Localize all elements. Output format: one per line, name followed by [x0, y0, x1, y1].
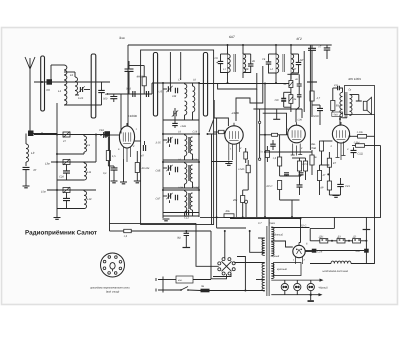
node: [41, 81, 43, 83]
trimmer C row2: [63, 160, 70, 165]
trimmer C row3: [63, 188, 70, 193]
power transformer Тр1 core: [267, 226, 269, 296]
lamp 1: [281, 283, 288, 290]
trimmer C row1: [63, 132, 70, 137]
label -140В box: [332, 112, 343, 116]
capacitor x300 lower: [297, 185, 303, 187]
wire: [316, 250, 364, 252]
tube V4 6P6: [332, 125, 349, 143]
wire: [312, 104, 320, 106]
wire gang feed B: [180, 52, 182, 80]
svg-text:-2,5М: -2,5М: [353, 141, 360, 144]
capacitor с24В: [172, 123, 178, 125]
wire V5 left: [271, 241, 293, 247]
coil right T0: [193, 86, 195, 112]
box колодка: [176, 276, 193, 283]
resistor 20к: [224, 214, 234, 218]
svg-text:ЛЗ: ЛЗ: [45, 88, 50, 92]
output transformer winding B: [350, 95, 353, 116]
capacitor C6: [146, 91, 148, 97]
svg-text:76Ш: 76Ш: [311, 147, 317, 150]
svg-text:С21: С21: [345, 185, 350, 188]
IF2 winding B: [291, 54, 294, 73]
wire y113: [263, 113, 287, 135]
lamp 2: [294, 283, 301, 290]
wire: [151, 83, 153, 94]
ground: [134, 181, 141, 183]
resistor +2 right drop: [310, 91, 314, 101]
svg-text:20к: 20к: [225, 210, 231, 213]
wire: [108, 165, 114, 167]
wire stair 2: [236, 66, 263, 121]
svg-text:С13: С13: [184, 217, 189, 220]
svg-text:1,5: 1,5: [124, 235, 128, 238]
IF2 capacitor B: [296, 62, 302, 64]
resistor x299: [297, 161, 301, 171]
ground: [183, 247, 191, 249]
wire rails right: [374, 115, 376, 264]
ground: [120, 182, 127, 184]
node: [198, 82, 200, 84]
wire +B drop right: [311, 45, 313, 48]
capacitor C row3: [63, 198, 70, 200]
trimmer 3+25 row0: [168, 86, 170, 92]
wire transformer top: [268, 219, 270, 227]
resistor 39к: [319, 141, 323, 151]
resistor 1-10к: [358, 135, 367, 139]
svg-text:кол.: кол.: [178, 279, 183, 282]
wire plate V4: [339, 118, 341, 120]
resistor 2а: [289, 95, 293, 104]
capacitor C05: [133, 91, 135, 97]
svg-text:L4В: L4В: [244, 68, 249, 71]
svg-text:Смеч: Смеч: [269, 222, 276, 225]
row wire osc0: [152, 82, 199, 84]
power transformer secondary lower: [271, 264, 274, 279]
grid wire V3: [260, 134, 272, 136]
svg-text:5000: 5000: [313, 115, 319, 118]
trimmer: [168, 165, 170, 171]
capacitor on y176 B: [299, 173, 304, 175]
wires filter: [310, 240, 320, 242]
resistor column x279 R7: [278, 157, 282, 166]
wire mesh: [265, 151, 312, 153]
capacitor C13: [163, 212, 199, 214]
wire lamps top: [271, 280, 320, 295]
filter choke Д3: [337, 239, 345, 243]
wire V5 right: [305, 251, 312, 253]
wire: [51, 64, 64, 66]
wire stair 4: [214, 100, 228, 126]
capacitor C2: [98, 90, 105, 92]
svg-text:55w: 55w: [336, 105, 341, 108]
resistor R L545: [246, 165, 250, 173]
osc transformer winding A: [185, 191, 187, 212]
ground: [329, 194, 340, 196]
svg-text:НАРУЖНАЯ АНТЕННА: НАРУЖНАЯ АНТЕННА: [323, 270, 349, 273]
wire: [290, 88, 292, 95]
resistor 5к x312: [310, 155, 314, 165]
wire IF2 bottom loop: [287, 73, 298, 75]
svg-text:чёрный: чёрный: [271, 255, 280, 258]
svg-text:6А7: 6А7: [229, 35, 235, 39]
power transformer primary winding lower: [262, 263, 265, 291]
wire: [264, 84, 266, 218]
coupling coil наружная антенна: [310, 263, 331, 265]
coil L11: [84, 163, 87, 180]
wire vertical 256: [256, 89, 258, 217]
tube V2 6A7 mixer: [225, 126, 243, 144]
wire long vertical A: [303, 51, 305, 112]
svg-text:248: 248: [171, 95, 177, 98]
capacitor ч8: [297, 84, 302, 86]
wires: [163, 159, 199, 161]
IF2 capacitor A: [266, 62, 272, 64]
wire: [321, 151, 323, 165]
wires transformer primary top: [340, 88, 343, 92]
ground under V2: [228, 162, 230, 164]
svg-text:L545: L545: [239, 168, 245, 171]
svg-text:жёлтый: жёлтый: [272, 234, 283, 237]
node: [56, 134, 58, 136]
svg-text:200: 200: [274, 99, 280, 102]
row wire: [163, 189, 199, 191]
node: [56, 189, 58, 191]
wire: [280, 199, 300, 201]
svg-text:8Р: 8Р: [321, 187, 324, 190]
wire: [110, 222, 197, 224]
grid stopper R: [219, 130, 225, 133]
output transformer core: [345, 92, 347, 118]
svg-text:С9Б: С9Б: [156, 170, 161, 173]
tuning gang bar 3: [153, 53, 157, 117]
tube V1 6K7: [119, 126, 134, 148]
tuning gang bar 1: [41, 56, 45, 111]
wire antenna row: [34, 81, 110, 83]
capacitor 5000: [317, 108, 323, 110]
svg-text:47: 47: [33, 168, 37, 172]
node: [198, 161, 200, 163]
switch stair wires: [196, 223, 219, 266]
wire power top rail: [230, 218, 301, 220]
wire: [243, 189, 249, 191]
resistor R2: [135, 163, 139, 173]
IF1 core: [234, 54, 236, 72]
svg-text:L11: L11: [87, 171, 92, 174]
svg-text:-740: -740: [333, 114, 338, 117]
node: [242, 216, 244, 218]
rect label box красный: [274, 263, 302, 276]
svg-text:Зла: Зла: [119, 36, 125, 40]
wire: [237, 257, 245, 291]
node: [41, 133, 43, 135]
coil L9: [84, 136, 87, 152]
bottom bus wire: [200, 216, 381, 218]
wire row 1: [34, 134, 107, 136]
ground: [310, 295, 312, 301]
svg-text:С9Г: С9Г: [156, 198, 161, 201]
capacitor C on +B drop: [125, 69, 134, 71]
resistor 1,5: [124, 229, 132, 232]
svg-text:0-7: 0-7: [258, 222, 262, 225]
wire y83 long: [199, 83, 289, 85]
svg-text:15м: 15м: [41, 191, 46, 194]
IF1 winding B: [243, 54, 246, 73]
filter cap Д31: [320, 239, 328, 243]
svg-text:2а: 2а: [293, 98, 297, 101]
capacitor C7: [25, 162, 27, 166]
capacitor on y176 A: [284, 173, 289, 175]
wire row 2: [51, 161, 96, 163]
svg-text:Д2: Д2: [352, 236, 357, 239]
wire tap to right: [271, 227, 309, 229]
capacitor: [175, 195, 177, 201]
svg-text:Чёрный: Чёрный: [319, 287, 329, 290]
wire gang feed A: [169, 52, 171, 86]
svg-text:С28: С28: [59, 176, 64, 179]
trimmer capacitor C05: [80, 87, 82, 92]
wire row 3: [47, 189, 96, 191]
svg-text:13м: 13м: [45, 163, 50, 166]
ground: [54, 218, 61, 220]
tube V1 pins: [124, 147, 131, 162]
resistor R 40 variable: [289, 81, 293, 88]
node +B top rail: [128, 44, 332, 46]
speaker cone: [367, 97, 372, 114]
svg-text:1-10к: 1-10к: [357, 131, 364, 134]
svg-text:L13: L13: [87, 198, 92, 201]
wire y94: [107, 93, 152, 95]
IF1 capacitor B: [248, 64, 254, 66]
wires: [163, 215, 199, 217]
trimmer: [168, 137, 170, 143]
node: [198, 133, 200, 135]
wire to V3 plate: [296, 107, 299, 122]
capacitor V3 grid: [270, 144, 276, 146]
resistor R 4H500: [142, 77, 146, 86]
svg-text:С18: С18: [99, 129, 104, 132]
ground: [111, 181, 118, 183]
svg-text:L3: L3: [31, 151, 35, 155]
wire vertical 211: [208, 134, 212, 225]
connector right: [105, 131, 111, 137]
resistor 25к: [241, 196, 245, 203]
IF transformer 2 frame: [275, 45, 277, 54]
capacitor C24B: [175, 88, 177, 94]
resistor 55w: [332, 88, 334, 101]
capacitor T on y94: [110, 97, 117, 99]
svg-text:Д3: Д3: [337, 236, 342, 239]
wire y109: [253, 108, 302, 110]
osc transformer T0: [185, 84, 187, 98]
core: [188, 137, 189, 153]
svg-text:Д31: Д31: [318, 236, 324, 239]
tuning gang bar 2: [91, 54, 96, 118]
wire to V5 top: [300, 219, 302, 243]
capacitor 41Е electrolytic: [364, 249, 369, 253]
capacitor c7 top right: [324, 48, 331, 50]
wire row2 to ground: [212, 161, 233, 163]
filter cap Д2: [353, 239, 361, 243]
svg-text:(вид снизу): (вид снизу): [106, 291, 119, 294]
wires: [163, 119, 199, 121]
svg-text:6-25: 6-25: [78, 97, 84, 100]
svg-text:40-10к: 40-10к: [142, 167, 151, 170]
capacitor C2B: [63, 171, 70, 173]
wire: [131, 230, 211, 232]
osc transformer winding A: [185, 163, 187, 184]
svg-text:6Р-С: 6Р-С: [267, 185, 273, 188]
connector 4В: [47, 79, 53, 85]
IF2 core: [283, 54, 285, 72]
wire slant: [209, 120, 213, 132]
tube V5 rectifier: [293, 245, 305, 257]
wires speaker feed: [350, 94, 359, 96]
core: [188, 165, 189, 181]
wire plate: [126, 123, 128, 126]
svg-text:L5: L5: [70, 73, 74, 77]
wire to V4 top: [339, 116, 341, 125]
IF2 bottom wires: [275, 73, 277, 83]
capacitor C1B grid: [100, 134, 102, 136]
capacitor on drop: [308, 48, 316, 50]
coil unit box: [141, 50, 214, 225]
capacitor: [175, 167, 177, 173]
resistor V3 grid leak: [265, 151, 269, 158]
svg-text:+100В: +100В: [128, 114, 137, 118]
svg-text:4Рк 100Ч: 4Рк 100Ч: [348, 77, 362, 81]
svg-text:с24В: с24В: [181, 125, 187, 128]
ground inner: [162, 213, 164, 219]
svg-text:L4Г: L4Г: [292, 68, 297, 71]
terminal circle: [244, 200, 247, 203]
row wire: [163, 161, 199, 163]
power transformer secondary upper: [271, 227, 274, 241]
bus rail: [56, 103, 58, 217]
svg-text:С2Д: С2Д: [358, 153, 363, 156]
wires: [163, 187, 199, 189]
capacitor C4: [135, 140, 141, 142]
resistor R 6РС: [278, 181, 282, 190]
tube V4 pins: [336, 142, 346, 161]
capacitor top T: [307, 81, 317, 83]
tube socket layout view: [101, 253, 125, 277]
wire: [64, 104, 102, 106]
terminal circles: [259, 109, 261, 121]
rotary band switch: [218, 258, 235, 275]
wire: [34, 133, 58, 135]
svg-text:-110В: -110В: [231, 111, 239, 115]
wire: [208, 133, 217, 135]
wire box right: [198, 83, 200, 217]
capacitor 200 electrolytic: [284, 91, 291, 93]
wire: [127, 45, 129, 126]
svg-text:С18: С18: [193, 131, 198, 134]
wire primary bottom: [343, 117, 348, 119]
IF1 bottom wires: [227, 73, 229, 84]
capacitor 0,01: [184, 233, 190, 235]
svg-text:Радиоприёмник Салют: Радиоприёмник Салют: [25, 230, 97, 237]
node: [56, 153, 58, 155]
tuning gang bar 4: [203, 53, 207, 117]
output transformer winding A: [340, 92, 343, 118]
osc transformer winding B: [190, 193, 192, 210]
node: [198, 189, 200, 191]
wire left power drop: [110, 230, 125, 232]
wire: [95, 135, 97, 163]
svg-text:L1: L1: [58, 89, 62, 93]
capacitor: [175, 139, 177, 145]
resistor 0.25М: [356, 144, 365, 148]
capacitor С2Д: [351, 150, 357, 152]
tube V3 6G2: [288, 125, 306, 143]
svg-text:С10Д: С10Д: [193, 187, 200, 190]
stair to filter: [333, 217, 335, 228]
capacitor 4,0: [338, 86, 340, 91]
capacitor C40: [111, 168, 118, 170]
wire: [245, 290, 264, 292]
trimmer: [168, 193, 170, 199]
resistor Е7 x331: [327, 158, 331, 167]
wires primary taps: [258, 237, 265, 239]
node: [56, 161, 58, 163]
osc transformer winding A: [185, 135, 187, 156]
osc transformer winding B: [190, 137, 192, 154]
bus rail inner: [162, 83, 164, 213]
fuse Зв: [201, 289, 210, 293]
wire: [216, 118, 218, 228]
svg-text:С26: С26: [298, 119, 303, 122]
tube V3 pins: [291, 144, 303, 156]
power transformer secondary mid: [271, 242, 274, 256]
resistor x331 lower: [327, 181, 331, 190]
wire left V3 bias: [279, 135, 281, 152]
capacitor series lower: [297, 95, 302, 97]
wire B+ feed T cap: [365, 217, 367, 230]
svg-text:39к-: 39к-: [311, 143, 316, 146]
ground: [25, 170, 27, 186]
switch Вк: [181, 287, 188, 291]
speaker magnet: [363, 101, 367, 110]
svg-text:500: 500: [103, 98, 108, 101]
resistor x305: [303, 161, 307, 171]
svg-text:3-25: 3-25: [157, 91, 163, 94]
connector antenna jack: [28, 131, 34, 137]
coil L13: [84, 191, 87, 209]
svg-text:1,5: 1,5: [112, 155, 116, 158]
antenna W1: [29, 68, 31, 132]
resistor ч7 x319: [317, 171, 321, 181]
resistor R1: [106, 151, 110, 161]
mains plug: [156, 277, 163, 293]
svg-text:6Г2: 6Г2: [297, 37, 303, 41]
svg-text:4,0: 4,0: [334, 84, 338, 87]
svg-text:цоколёвка переключателя сети: цоколёвка переключателя сети: [90, 286, 130, 289]
wire long vertical B: [309, 46, 311, 151]
wire stair 1: [218, 73, 257, 89]
tube V2 pins down: [229, 143, 240, 217]
IF transformer 1 frame: [227, 45, 229, 54]
power transformer primary winding upper: [262, 238, 265, 256]
IF1 winding A: [228, 54, 231, 73]
ground on y109: [276, 109, 278, 119]
speaker unit box: [345, 86, 375, 115]
coil L1: [64, 65, 67, 105]
capacitor C21: [337, 184, 344, 186]
osc transformer winding B: [190, 165, 192, 182]
svg-text:27: 27: [62, 140, 66, 143]
svg-text:0,1: 0,1: [103, 172, 107, 175]
